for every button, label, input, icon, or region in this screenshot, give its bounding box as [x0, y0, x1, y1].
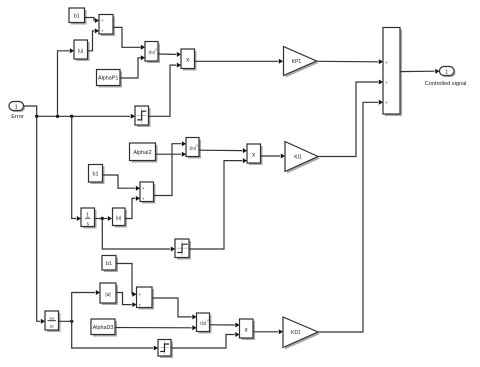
wire b1 D to Sum3 [116, 264, 132, 295]
svg-text:+: + [385, 80, 388, 85]
sum block Sum4 [383, 28, 402, 117]
wire Abs2 to Sum2 [125, 198, 135, 218]
svg-text:KI1: KI1 [294, 155, 302, 161]
wire Power3 to Product3 [210, 324, 235, 326]
wire Product2 to KI1 [261, 155, 281, 157]
svg-text:AlphaP1: AlphaP1 [98, 76, 118, 82]
sum block Sum1 [99, 15, 115, 37]
integrator 1/s [81, 208, 97, 229]
svg-text:±|u|: ±|u| [189, 145, 196, 150]
wire integrator to Abs2 [95, 218, 108, 220]
svg-text:+: + [101, 18, 104, 23]
wire KI1 to Sum4 [318, 82, 378, 157]
sign block Sign1 [135, 106, 151, 127]
wire error bus horizontal to Sign1 [37, 115, 131, 117]
power block Power1 [145, 42, 160, 64]
wire bus up to Abs1 [58, 51, 70, 117]
svg-text:+: + [142, 186, 145, 191]
svg-text:±|u|: ±|u| [148, 50, 155, 55]
svg-text:b1: b1 [93, 172, 99, 178]
constant AlphaP1 [97, 70, 123, 88]
svg-text:KD1: KD1 [291, 330, 301, 336]
svg-text:b1: b1 [74, 13, 80, 19]
derivative du/dt [45, 311, 61, 332]
node junction after derivative [70, 320, 73, 323]
abs |u| Abs3 [100, 283, 118, 305]
wire Sum4 to outport [400, 70, 435, 72]
inport 1 Error [9, 102, 25, 120]
wire Power2 to Product2 [199, 149, 242, 151]
gain KP1 [284, 47, 319, 78]
wire bus down to integrator [72, 116, 77, 218]
wire Sum1 to Power1 [113, 27, 141, 47]
wire Error output to bus [24, 106, 37, 116]
svg-text:|u|: |u| [78, 48, 83, 54]
node junction bus3 [70, 115, 73, 118]
power block Power3 [197, 313, 212, 334]
node junction after integrator [101, 217, 104, 220]
svg-text:±|u|: ±|u| [200, 321, 207, 326]
wire KP1 to Sum4 [317, 60, 379, 63]
svg-text:1: 1 [15, 104, 18, 110]
node junction bus2 [56, 115, 59, 118]
outport 1 Controlled signal [425, 67, 467, 87]
svg-text:b1: b1 [106, 261, 112, 267]
svg-text:Controlled signal: Controlled signal [425, 81, 467, 87]
svg-text:+: + [385, 100, 388, 105]
sum block Sum3 [137, 287, 155, 310]
wire Sign1 to Product1 [149, 65, 177, 116]
wire KD1 to Sum4 [318, 102, 378, 332]
wire b1 I to Sum2 [103, 175, 136, 188]
svg-text:+: + [142, 196, 145, 201]
power block Power2 [186, 138, 201, 159]
sign block Sign2 [175, 239, 191, 260]
wire Sign2 to Product2 [189, 161, 242, 249]
wire derivative junction up to Abs3 [59, 293, 96, 322]
constant b1 (P row) [69, 8, 87, 25]
svg-text:|u|: |u| [116, 215, 121, 221]
wire AlphaP1 to Power1 [120, 58, 141, 78]
product Product2 [247, 144, 263, 165]
node junction bus1 [35, 115, 38, 118]
svg-text:|u|: |u| [105, 292, 110, 298]
abs |u| Abs2 [113, 208, 128, 228]
svg-text:Δu: Δu [49, 315, 54, 320]
wire Sign3 to Product3 [171, 335, 235, 349]
constant AlphaI2 [130, 143, 158, 163]
svg-text:AlphaI2: AlphaI2 [133, 150, 151, 156]
wire Product3 to KD1 [253, 331, 278, 333]
wire AlphaI2 to Power2 [156, 153, 182, 155]
wire b1 to Sum1 [85, 18, 95, 21]
svg-text:+: + [139, 292, 142, 297]
svg-text:Error: Error [11, 114, 24, 120]
svg-text:KP1: KP1 [292, 59, 302, 65]
wire Power1 to Product1 [158, 53, 176, 55]
sign block Sign3 [158, 340, 173, 359]
constant b1 (D row) [102, 256, 118, 273]
gain KI1 [285, 142, 320, 174]
svg-text:1: 1 [86, 213, 89, 219]
svg-text:+: + [139, 302, 142, 307]
product Product3 [240, 319, 256, 340]
wire Product1 to KP1 [195, 60, 279, 62]
wire bus down to derivative [37, 116, 41, 321]
constant AlphaD3 [91, 319, 117, 337]
abs |u| Abs1 [74, 40, 90, 61]
wire Abs1 to Sum1 [88, 31, 95, 51]
constant b1 (I row) [89, 165, 105, 185]
wire junction down to Sign3 [72, 321, 154, 348]
gain KD1 [283, 317, 320, 350]
svg-text:+: + [385, 60, 388, 65]
svg-text:1: 1 [445, 69, 448, 75]
wire AlphaD3 to Power3 [115, 327, 192, 329]
wire junction down to Sign2 [102, 219, 170, 250]
sum block Sum2 [140, 182, 156, 204]
svg-text:+: + [101, 29, 104, 34]
svg-text:AlphaD3: AlphaD3 [93, 325, 114, 331]
wire Abs3 to Sum3 [116, 293, 132, 305]
product Product1 [181, 49, 197, 71]
wire Sum3 to Power3 [152, 298, 192, 317]
wire Sum2 to Power2 [154, 144, 182, 196]
